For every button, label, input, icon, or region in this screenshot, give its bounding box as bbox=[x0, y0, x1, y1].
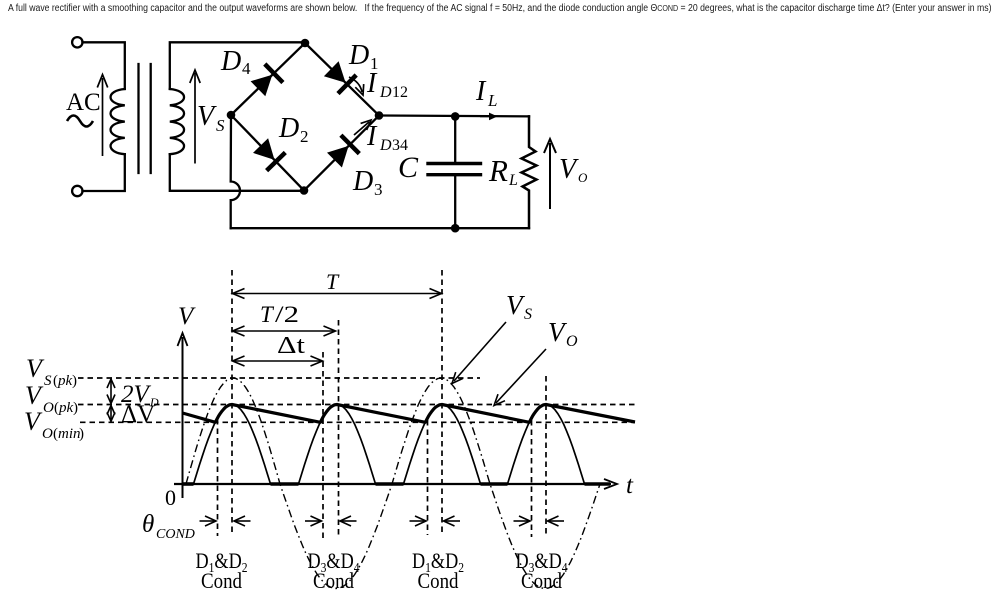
svg-text:O: O bbox=[42, 426, 53, 442]
output voltage arrow VO bbox=[549, 143, 551, 209]
vertical dashed at fourth peak bbox=[545, 376, 547, 537]
svg-text:pk: pk bbox=[57, 373, 73, 389]
svg-text:I: I bbox=[366, 121, 378, 152]
terminal bottom-left bbox=[72, 186, 82, 196]
secondary winding L2 bbox=[170, 89, 184, 154]
problem statement text bbox=[8, 3, 991, 14]
current ID12 arrow bbox=[349, 77, 362, 92]
svg-text:V: V bbox=[197, 101, 217, 132]
svg-text:Δt: Δt bbox=[277, 333, 305, 359]
conduction angle arrows pair 3 bbox=[410, 520, 426, 522]
svg-text:I: I bbox=[475, 76, 487, 107]
conduction angle arrows pair 4 bbox=[514, 520, 530, 522]
svg-text:D: D bbox=[220, 46, 241, 77]
top output rail bbox=[379, 114, 529, 117]
svg-text:): ) bbox=[73, 400, 78, 416]
zero segment 5 on axis bbox=[585, 482, 611, 486]
svg-text:V: V bbox=[506, 290, 526, 320]
svg-text:C: C bbox=[398, 151, 419, 184]
svg-text:S: S bbox=[524, 306, 532, 323]
svg-text:min: min bbox=[58, 426, 81, 442]
conduction angle arrows pair 1 bbox=[200, 520, 216, 522]
svg-text:4: 4 bbox=[242, 59, 251, 78]
wire primary bottom bbox=[83, 154, 125, 191]
rectified hump 3 bbox=[404, 405, 481, 485]
period arrow T bbox=[234, 293, 440, 295]
vertical dashed at second peak bbox=[338, 320, 340, 538]
svg-text:V: V bbox=[548, 317, 568, 347]
diode D3 bbox=[327, 135, 359, 167]
dashed level VS(pk) bbox=[78, 377, 480, 379]
svg-text:R: R bbox=[488, 153, 508, 188]
callout arrow VS bbox=[454, 322, 506, 381]
vertical dashed conduction start 4 bbox=[531, 420, 533, 537]
svg-text:V: V bbox=[26, 354, 45, 383]
svg-text:O: O bbox=[566, 333, 578, 350]
wire from left bridge node down with hop over secondary return bbox=[231, 115, 240, 228]
bottom output rail bbox=[231, 227, 529, 229]
bridge edge L-B with diode D2 bbox=[231, 115, 304, 191]
svg-text:Cond: Cond bbox=[313, 568, 354, 593]
svg-text:D: D bbox=[352, 166, 373, 197]
svg-text:D: D bbox=[379, 137, 392, 154]
waveform VS dash-dot curve bbox=[186, 378, 600, 589]
diode D2 bbox=[253, 138, 285, 170]
svg-text:3: 3 bbox=[374, 180, 383, 199]
zero segment 4 on axis bbox=[481, 482, 508, 486]
svg-text:): ) bbox=[79, 426, 84, 442]
x axis t bbox=[174, 483, 611, 485]
capacitor C plates bbox=[428, 164, 481, 175]
svg-text:D: D bbox=[278, 113, 299, 144]
terminal top-left bbox=[72, 37, 82, 47]
svg-text:L: L bbox=[487, 91, 497, 110]
rectified hump 2 bbox=[299, 405, 376, 485]
wire secondary top to bridge top node bbox=[170, 42, 305, 89]
svg-text:0: 0 bbox=[165, 485, 176, 510]
diode D4 bbox=[251, 64, 283, 96]
vertical dashed at first peak bbox=[231, 270, 233, 535]
node capacitor bottom junction bbox=[451, 224, 460, 233]
half period arrow T/2 bbox=[234, 330, 334, 332]
svg-text:): ) bbox=[72, 373, 77, 389]
capacitor C top lead bbox=[454, 116, 456, 163]
node bridge left junction bbox=[227, 111, 236, 120]
wire secondary bottom to bridge bottom node bbox=[170, 154, 304, 191]
svg-text:L: L bbox=[508, 172, 518, 189]
bridge edge B-R with diode D3 bbox=[304, 116, 379, 191]
bridge edge T-R with diode D1 bbox=[305, 43, 379, 116]
node bridge bottom junction bbox=[300, 186, 309, 195]
load branch wire and resistor RL bbox=[522, 116, 537, 228]
dimension arrow 2VD bbox=[110, 381, 112, 402]
wire primary top bbox=[83, 42, 125, 89]
rectified hump 1 bbox=[194, 405, 271, 485]
svg-text:S: S bbox=[44, 373, 52, 389]
conduction angle arrows pair 2 bbox=[305, 520, 321, 522]
svg-text:I: I bbox=[366, 68, 378, 99]
vertical dashed at third peak bbox=[441, 270, 443, 533]
svg-text:S: S bbox=[216, 116, 225, 135]
svg-text:Cond: Cond bbox=[201, 568, 242, 593]
zero segment 3 on axis bbox=[376, 482, 404, 486]
svg-text:O: O bbox=[43, 400, 54, 416]
svg-text:V: V bbox=[559, 154, 579, 185]
vertical dashed conduction start 1 bbox=[217, 419, 219, 536]
svg-text:ΔV: ΔV bbox=[121, 401, 155, 428]
transformer core bbox=[139, 64, 151, 173]
rectified hump 4 bbox=[508, 405, 585, 485]
svg-text:Cond: Cond bbox=[521, 568, 562, 593]
svg-text:O: O bbox=[578, 170, 588, 185]
waveform VO thick curve bbox=[183, 405, 636, 423]
AC tilde symbol bbox=[67, 116, 93, 127]
svg-text:θ: θ bbox=[142, 511, 154, 538]
capacitor C bottom lead bbox=[454, 175, 456, 229]
secondary voltage arrow bbox=[194, 73, 196, 164]
svg-text:2: 2 bbox=[300, 127, 309, 146]
svg-text:t: t bbox=[626, 472, 634, 499]
dashed level VO(pk) bbox=[78, 404, 637, 406]
svg-text:V: V bbox=[178, 303, 196, 330]
svg-text:pk: pk bbox=[58, 400, 74, 416]
callout arrow VO bbox=[496, 349, 546, 403]
load current IL arrowhead bbox=[480, 115, 492, 117]
svg-text:COND: COND bbox=[156, 527, 195, 542]
svg-text:D: D bbox=[348, 40, 369, 71]
svg-text:T: T bbox=[326, 269, 340, 294]
svg-text:T: T bbox=[260, 302, 275, 327]
primary voltage arrow bbox=[102, 78, 104, 156]
svg-text:D: D bbox=[379, 84, 392, 101]
diode D1 bbox=[324, 61, 356, 93]
svg-text:AC: AC bbox=[66, 89, 101, 116]
vertical dashed conduction start 3 bbox=[427, 420, 429, 535]
dimension arrow deltaV bbox=[110, 408, 112, 420]
node capacitor top junction bbox=[451, 112, 460, 121]
svg-text:V: V bbox=[24, 407, 43, 436]
svg-text:/2: /2 bbox=[275, 302, 299, 327]
dashed level VO(min) bbox=[80, 421, 635, 423]
primary winding L1 bbox=[111, 89, 125, 154]
vertical dashed conduction start 2 bbox=[322, 352, 324, 538]
svg-text:V: V bbox=[25, 381, 44, 410]
zero segment 1 on axis bbox=[183, 482, 194, 486]
y axis V bbox=[182, 337, 184, 498]
svg-text:12: 12 bbox=[392, 84, 408, 101]
zero segment 2 on axis bbox=[271, 482, 299, 486]
node bridge right junction bbox=[375, 111, 384, 120]
bridge edge T-L with diode D4 bbox=[231, 43, 305, 115]
svg-text:Cond: Cond bbox=[418, 568, 459, 593]
current ID34 arrow bbox=[354, 122, 369, 135]
node bridge top junction bbox=[301, 39, 310, 48]
discharge time arrow delta-t bbox=[234, 360, 321, 362]
